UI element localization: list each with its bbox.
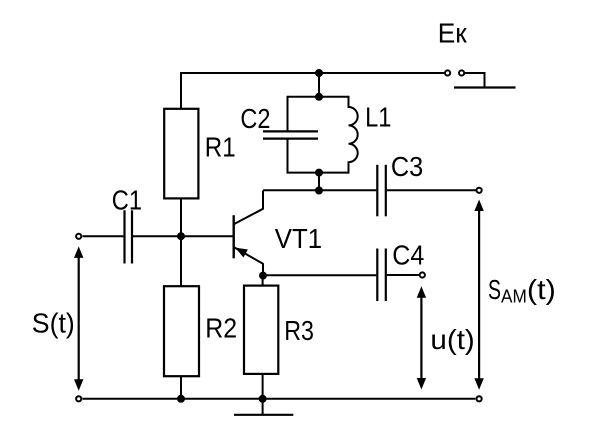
svg-text:Eк: Eк [438,17,468,48]
svg-text:R3: R3 [284,315,314,346]
input terminal S(t) [76,234,81,239]
svg-text:S(t): S(t) [32,308,75,339]
svg-text:L1: L1 [365,102,391,133]
transistor VT1 [234,191,263,276]
capacitor C4 [377,249,386,302]
output terminal SAM [477,188,482,193]
capacitor C1 [125,210,133,263]
switch supply stub Ek [454,73,516,88]
terminal Ek right [459,70,464,75]
svg-text:VT1: VT1 [275,223,322,254]
wire tank to collector line [318,173,320,191]
svg-text:u(t): u(t) [430,324,474,355]
wire R1 top to Ek rail [181,73,445,109]
resistor R3 [244,286,278,374]
svg-text:SAM(t): SAM(t) [488,274,556,307]
junction tank top node [315,93,323,101]
terminal Ek left [445,70,450,75]
junction R3 ground [259,395,267,403]
wire tank top side [288,96,349,98]
svg-text:C3: C3 [391,151,423,182]
svg-text:R1: R1 [205,132,236,163]
capacitor C3 [377,165,386,217]
terminal ground rail left [76,396,81,401]
dimension arrow SAM(t) [474,200,483,390]
wire C1 to base [133,235,233,237]
wire R1 bottom to R2 top through base node [180,198,182,286]
resistor R2 [164,286,199,376]
dimension arrow S(t) [74,246,83,390]
svg-text:C1: C1 [112,185,142,216]
junction emitter node [259,272,267,280]
junction collector node [315,187,323,195]
inductor L1 [349,96,358,174]
capacitor C2 [263,96,318,174]
ground symbol [234,399,293,415]
junction tank bottom node [315,169,323,177]
wire emitter to C4 [263,274,376,276]
wire R2 bottom to ground rail [180,376,182,399]
svg-text:C4: C4 [392,240,424,271]
junction rail tank tap [315,69,323,77]
wire input to C1 [83,235,124,237]
wire R3 bottom to ground rail [262,374,264,399]
terminal u(t) [420,272,425,277]
wire collector to C3 [263,189,376,191]
junction base node [177,232,185,240]
wire C4 to u(t) terminal [387,274,420,276]
bottom ground rail [83,398,476,400]
terminal ground rail right [477,396,482,401]
wire rail to tank top [318,73,320,97]
junction R2 ground [177,395,185,403]
dimension arrow u(t) [417,286,426,389]
wire emitter node to R3 [262,276,264,286]
wire tank bottom side [288,172,349,174]
svg-text:C2: C2 [240,103,270,134]
svg-text:R2: R2 [205,313,237,344]
resistor R1 [164,109,198,199]
wire C3 to output terminal [387,189,476,191]
